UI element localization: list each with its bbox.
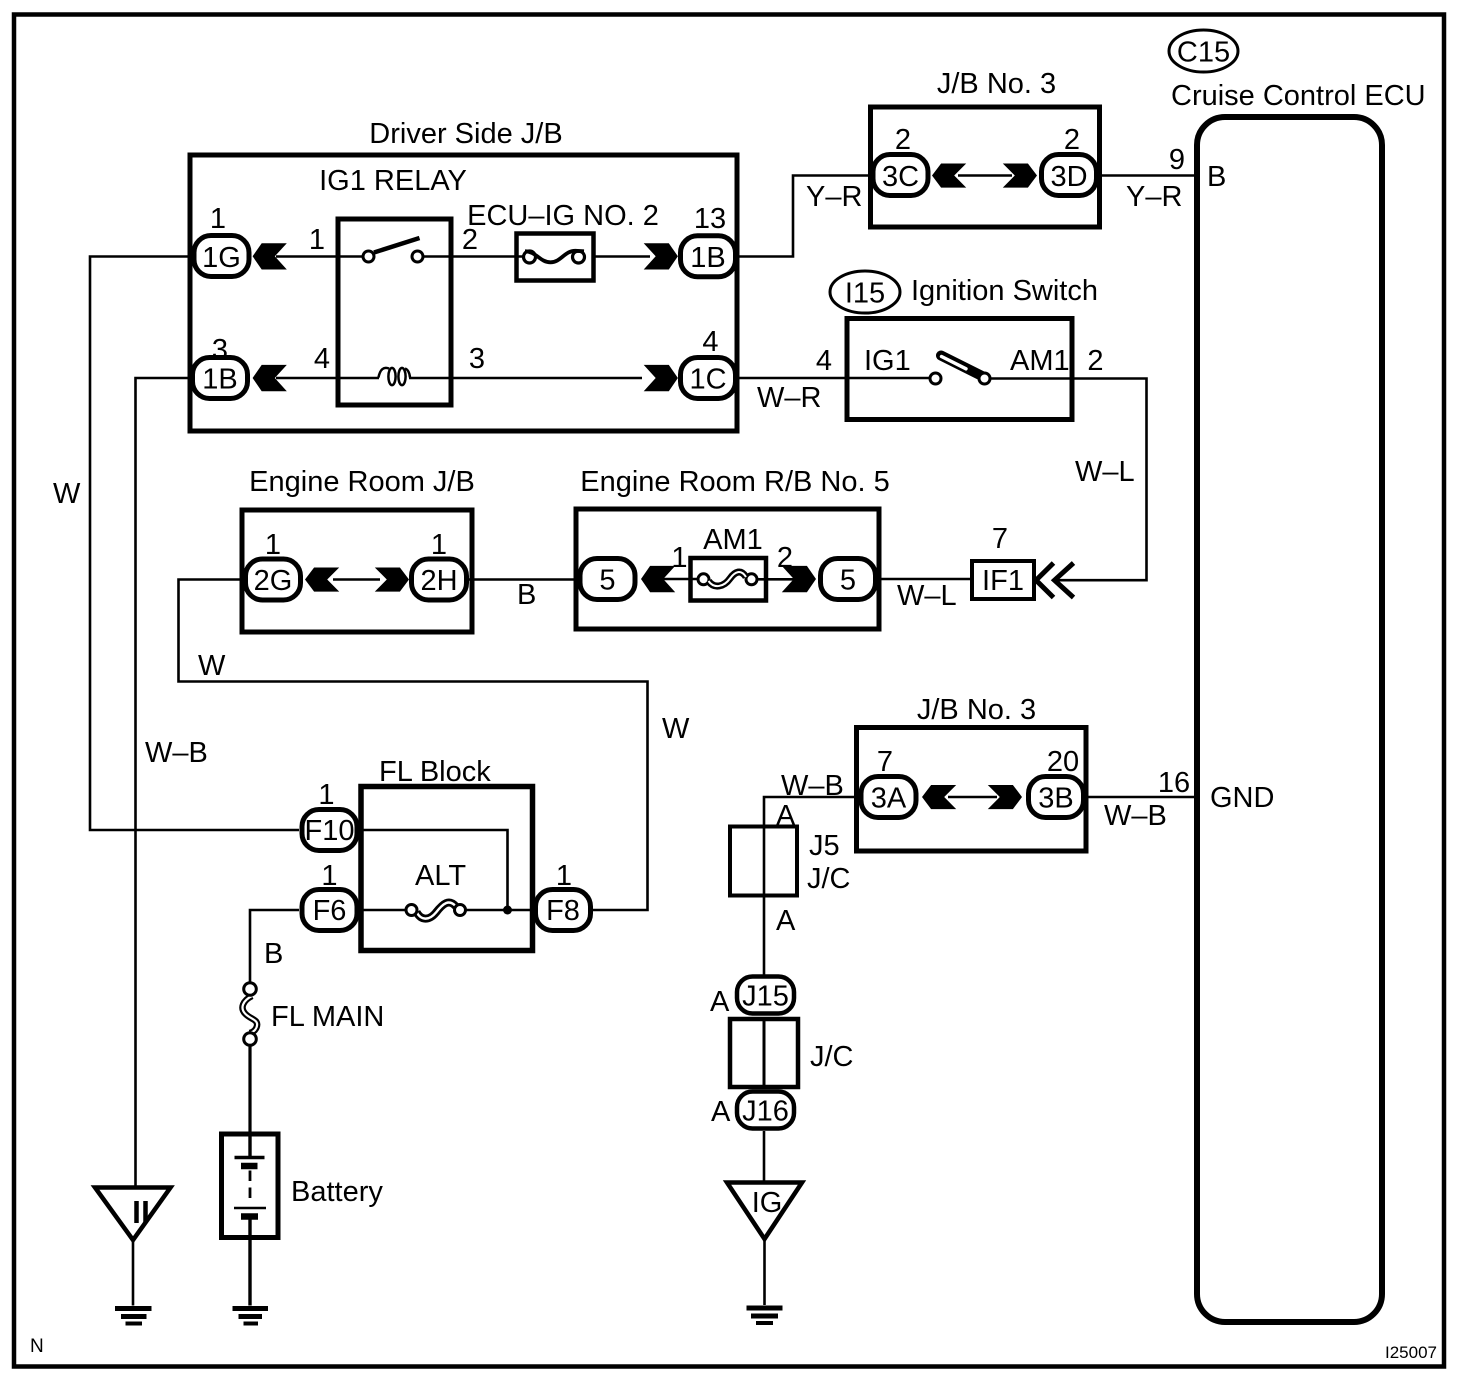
fuse block FL Block bbox=[361, 756, 533, 951]
junction dot bbox=[503, 906, 512, 915]
arrow into 1B pin 13 bbox=[644, 243, 678, 269]
svg-text:20: 20 bbox=[1047, 746, 1079, 778]
svg-text:16: 16 bbox=[1158, 767, 1190, 799]
svg-text:1C: 1C bbox=[689, 364, 726, 396]
wire AM1 pin 2 to IF1 (W-L) bbox=[990, 379, 1147, 581]
svg-text:N: N bbox=[30, 1336, 44, 1357]
svg-text:W–L: W–L bbox=[897, 580, 957, 612]
wire triangle II to ground bbox=[132, 1240, 135, 1306]
wire 1B to triangle II (W-B) bbox=[136, 378, 191, 1187]
wire 1B(13) to 3C (Y-R) bbox=[738, 176, 871, 257]
relay block Engine Room R/B No. 5 bbox=[576, 466, 890, 629]
connector F10 pin 1 bbox=[302, 779, 357, 851]
svg-text:Ignition Switch: Ignition Switch bbox=[911, 275, 1098, 307]
fusible link FL MAIN bbox=[243, 983, 258, 1046]
wire 5 to AM1 fuse bbox=[663, 578, 698, 581]
svg-text:Cruise Control ECU: Cruise Control ECU bbox=[1171, 80, 1426, 112]
svg-text:13: 13 bbox=[694, 203, 726, 235]
svg-text:IG1 RELAY: IG1 RELAY bbox=[319, 165, 467, 197]
arrow at 1B bbox=[253, 365, 287, 391]
svg-text:2G: 2G bbox=[254, 565, 293, 597]
svg-text:W–B: W–B bbox=[145, 737, 208, 769]
ground (II) bbox=[115, 1309, 152, 1324]
svg-text:9: 9 bbox=[1169, 144, 1185, 176]
connector F8 pin 1 bbox=[536, 860, 591, 931]
svg-text:1B: 1B bbox=[690, 242, 725, 274]
wire 2G to F8 (W) bbox=[179, 580, 648, 911]
connector 5 (right) bbox=[821, 559, 876, 600]
ECU Cruise Control ECU bbox=[1171, 80, 1426, 1322]
svg-text:7: 7 bbox=[992, 523, 1008, 555]
svg-text:Engine Room J/B: Engine Room J/B bbox=[249, 466, 475, 498]
svg-text:J15: J15 bbox=[742, 981, 789, 1013]
wire F6 to F8 bbox=[360, 909, 407, 912]
connector 2G pin 1 bbox=[246, 529, 301, 600]
svg-text:1B: 1B bbox=[202, 364, 237, 396]
svg-text:5: 5 bbox=[599, 565, 615, 597]
connector 1C pin 4 bbox=[681, 326, 736, 399]
svg-text:A: A bbox=[710, 986, 730, 1018]
svg-text:Y–R: Y–R bbox=[1126, 181, 1182, 213]
connector 3C pin 2 bbox=[873, 124, 928, 196]
connector F6 pin 1 bbox=[302, 860, 357, 931]
connector 3D pin 2 bbox=[1042, 124, 1097, 196]
svg-text:F6: F6 bbox=[313, 895, 347, 927]
svg-text:B: B bbox=[1207, 161, 1226, 193]
svg-text:A: A bbox=[776, 905, 796, 937]
arrow at 2G bbox=[305, 567, 339, 591]
connector 1G pin 1 bbox=[194, 203, 249, 277]
svg-text:F8: F8 bbox=[546, 895, 580, 927]
svg-text:Engine Room R/B No. 5: Engine Room R/B No. 5 bbox=[580, 466, 889, 498]
svg-text:4: 4 bbox=[702, 326, 718, 358]
arrow into 1C bbox=[644, 365, 678, 391]
ground triangle IG bbox=[727, 1183, 802, 1240]
svg-text:W: W bbox=[198, 650, 226, 682]
junction block J/B No. 3 (bottom) bbox=[857, 694, 1087, 851]
svg-text:1G: 1G bbox=[202, 242, 241, 274]
svg-text:W–B: W–B bbox=[1104, 800, 1167, 832]
arrow at 3A bbox=[922, 785, 956, 809]
svg-text:W: W bbox=[53, 478, 81, 510]
svg-text:J5: J5 bbox=[809, 830, 840, 862]
connector code C15 bbox=[1169, 30, 1238, 72]
svg-text:B: B bbox=[517, 579, 536, 611]
svg-text:ECU–IG NO. 2: ECU–IG NO. 2 bbox=[467, 200, 659, 232]
wire FL MAIN to battery bbox=[248, 1046, 251, 1135]
svg-text:W–L: W–L bbox=[1075, 456, 1135, 488]
svg-text:AM1: AM1 bbox=[1010, 345, 1070, 377]
svg-text:5: 5 bbox=[840, 565, 856, 597]
svg-text:IF1: IF1 bbox=[982, 565, 1024, 597]
wire between 3A and 3B bbox=[948, 796, 997, 799]
wire J16 to IG triangle bbox=[763, 1131, 766, 1184]
arrow at 3B bbox=[988, 785, 1022, 809]
junction connector J5 J/C bbox=[730, 827, 851, 896]
svg-text:J/B No. 3: J/B No. 3 bbox=[917, 694, 1036, 726]
svg-text:J/B No. 3: J/B No. 3 bbox=[937, 68, 1056, 100]
fusible link ALT bbox=[406, 902, 466, 918]
ground (IG) bbox=[747, 1308, 783, 1323]
relay coil bbox=[379, 368, 411, 385]
junction block Engine Room J/B bbox=[242, 466, 475, 632]
connector J15 bbox=[710, 977, 794, 1019]
arrow at 5 (left) bbox=[641, 566, 675, 592]
svg-text:1: 1 bbox=[265, 529, 281, 561]
switch Ignition Switch bbox=[847, 275, 1098, 420]
svg-text:1: 1 bbox=[309, 224, 325, 256]
wire 5 to IF1 (W-L) bbox=[878, 578, 973, 581]
svg-text:I15: I15 bbox=[845, 278, 885, 310]
relay switch contact bbox=[363, 238, 423, 262]
svg-text:F10: F10 bbox=[305, 815, 355, 847]
arrow at 3C bbox=[932, 163, 966, 187]
connector 1B pin 13 bbox=[681, 203, 736, 277]
wire AM1 fuse to 5 bbox=[757, 578, 794, 581]
svg-text:A: A bbox=[711, 1096, 731, 1128]
connector 5 (left) pin 1 bbox=[580, 559, 635, 600]
svg-text:IG: IG bbox=[752, 1187, 783, 1219]
fuse ECU-IG NO. 2 bbox=[467, 200, 659, 281]
svg-text:1: 1 bbox=[318, 779, 334, 811]
wire 3D to ECU pin 9 (Y-R) bbox=[1099, 174, 1198, 177]
wire relay pin 3 to 1C bbox=[409, 377, 642, 380]
junction connector J/C bbox=[730, 1019, 854, 1087]
wire relay pin 2 to ECU-IG fuse bbox=[423, 255, 536, 258]
svg-text:4: 4 bbox=[314, 343, 330, 375]
wire 1G to relay pin 1 bbox=[276, 255, 363, 258]
svg-text:FL Block: FL Block bbox=[379, 756, 491, 788]
wire IG triangle to ground bbox=[763, 1239, 766, 1305]
arrow at 5 (right) bbox=[782, 566, 816, 592]
arrow at 1G bbox=[253, 243, 287, 269]
svg-text:7: 7 bbox=[877, 746, 893, 778]
svg-text:3: 3 bbox=[469, 343, 485, 375]
chevrons at IF1 bbox=[1036, 563, 1074, 598]
connector 2H pin 1 bbox=[412, 529, 467, 600]
wire between 3C and 3D bbox=[958, 174, 1012, 177]
ground (battery) bbox=[233, 1309, 269, 1324]
svg-text:IG1: IG1 bbox=[864, 345, 911, 377]
connector IF1 bbox=[972, 561, 1034, 599]
wire 1G to F10 (W) bbox=[90, 257, 299, 831]
junction block J/B No. 3 (top) bbox=[871, 68, 1100, 227]
svg-text:FL MAIN: FL MAIN bbox=[271, 1001, 384, 1033]
arrow at 2H bbox=[375, 567, 409, 591]
wire 2H to 5 (B) bbox=[469, 578, 580, 581]
svg-text:2: 2 bbox=[1087, 345, 1103, 377]
svg-text:1: 1 bbox=[210, 203, 226, 235]
svg-text:AM1: AM1 bbox=[703, 524, 763, 556]
svg-text:W–R: W–R bbox=[757, 382, 821, 414]
svg-text:Driver Side J/B: Driver Side J/B bbox=[369, 118, 562, 150]
wire fuse to 1B(13) bbox=[594, 255, 650, 258]
svg-text:3C: 3C bbox=[882, 161, 919, 193]
svg-text:GND: GND bbox=[1210, 782, 1274, 814]
wire 1C to IG1 pin 4 (W-R) bbox=[738, 377, 930, 380]
svg-text:W: W bbox=[662, 713, 690, 745]
ignition switch contact lever bbox=[930, 356, 990, 385]
svg-text:2: 2 bbox=[1064, 124, 1080, 156]
battery bbox=[222, 1134, 384, 1306]
connector 3A pin 7 bbox=[861, 746, 916, 818]
svg-text:C15: C15 bbox=[1177, 37, 1230, 69]
wire 3B to ECU pin 16 (W-B) bbox=[1087, 796, 1198, 799]
wire F10 to ALT output bbox=[360, 830, 508, 910]
svg-text:3: 3 bbox=[212, 334, 228, 366]
svg-text:I25007: I25007 bbox=[1385, 1343, 1437, 1362]
svg-text:Y–R: Y–R bbox=[806, 181, 862, 213]
svg-text:3B: 3B bbox=[1038, 783, 1073, 815]
svg-text:1: 1 bbox=[431, 529, 447, 561]
fuse AM1 bbox=[691, 524, 767, 601]
svg-text:J16: J16 bbox=[742, 1096, 789, 1128]
svg-text:ALT: ALT bbox=[415, 860, 466, 892]
svg-text:2: 2 bbox=[895, 124, 911, 156]
connector code I15 bbox=[830, 271, 900, 313]
relay IG1 RELAY bbox=[319, 165, 467, 405]
wire 1B to relay pin 4 bbox=[276, 377, 379, 380]
arrow at 3D bbox=[1003, 163, 1037, 187]
wire 3A to J15 (W-B) bbox=[764, 797, 859, 977]
wire F6 to FL MAIN (B) bbox=[250, 910, 299, 983]
connector J16 bbox=[711, 1092, 794, 1129]
junction block Driver Side J/B bbox=[190, 118, 737, 431]
connector 3B pin 20 bbox=[1029, 746, 1084, 818]
wire between 2G and 2H bbox=[333, 578, 380, 581]
svg-text:4: 4 bbox=[816, 345, 832, 377]
svg-text:1: 1 bbox=[671, 542, 687, 574]
svg-text:B: B bbox=[264, 938, 283, 970]
svg-text:2H: 2H bbox=[420, 565, 457, 597]
connector 1B pin 3 bbox=[193, 334, 248, 399]
svg-text:J/C: J/C bbox=[807, 863, 851, 895]
svg-text:J/C: J/C bbox=[810, 1041, 854, 1073]
ground triangle II bbox=[95, 1188, 171, 1241]
svg-text:3D: 3D bbox=[1050, 161, 1087, 193]
svg-text:3A: 3A bbox=[871, 783, 907, 815]
svg-text:Battery: Battery bbox=[291, 1176, 383, 1208]
